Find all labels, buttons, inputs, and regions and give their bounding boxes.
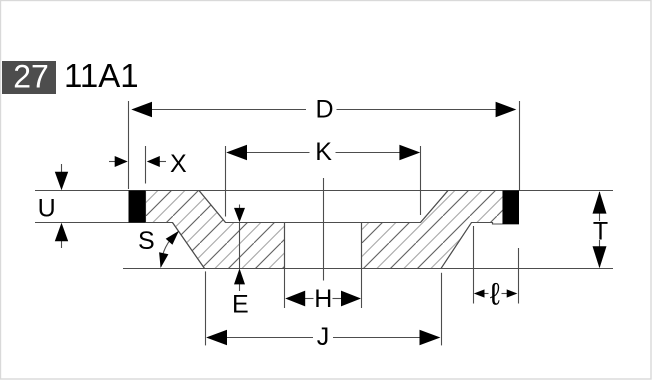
left step / U bottom extension line <box>35 222 173 224</box>
inner taper wall left <box>199 191 226 223</box>
svg-text:27: 27 <box>13 59 49 95</box>
dimension K <box>226 146 421 217</box>
dimension D <box>129 101 520 190</box>
svg-text:ℓ: ℓ <box>490 277 500 312</box>
dimension T <box>599 192 601 267</box>
svg-text:11A1: 11A1 <box>64 57 139 94</box>
index box 27 <box>2 61 56 94</box>
svg-text:J: J <box>317 323 330 351</box>
dimension S (angle) <box>161 232 179 268</box>
top surface line (with U and T extensions) <box>35 190 613 192</box>
svg-text:K: K <box>315 138 332 166</box>
dimension U <box>61 164 63 248</box>
inner taper wall right <box>421 191 449 223</box>
bore wall left / H extension <box>284 223 286 309</box>
dimension J <box>206 271 442 345</box>
bottom surface line (with S and T extensions) <box>123 268 613 270</box>
svg-text:U: U <box>38 194 56 222</box>
abrasive section left (black) <box>129 191 146 223</box>
centre line <box>323 178 325 281</box>
hatched core left arm <box>146 191 285 269</box>
bore wall right / H extension <box>361 223 363 309</box>
cavity floor line <box>226 222 421 224</box>
dimension X <box>109 146 166 184</box>
svg-text:T: T <box>593 218 608 246</box>
svg-text:S: S <box>138 227 155 255</box>
hatched core right arm <box>362 191 504 269</box>
svg-text:E: E <box>232 291 249 319</box>
right step line with jog <box>472 223 520 225</box>
abrasive section right (black) <box>503 191 520 225</box>
outer taper wall right <box>441 223 472 269</box>
svg-text:H: H <box>314 285 332 313</box>
svg-text:D: D <box>315 95 333 123</box>
dimension E <box>239 205 241 292</box>
svg-text:X: X <box>170 150 187 178</box>
outer taper wall left <box>173 223 205 269</box>
dimension l (abrasive depth) <box>474 226 519 304</box>
dimension H <box>304 298 342 300</box>
